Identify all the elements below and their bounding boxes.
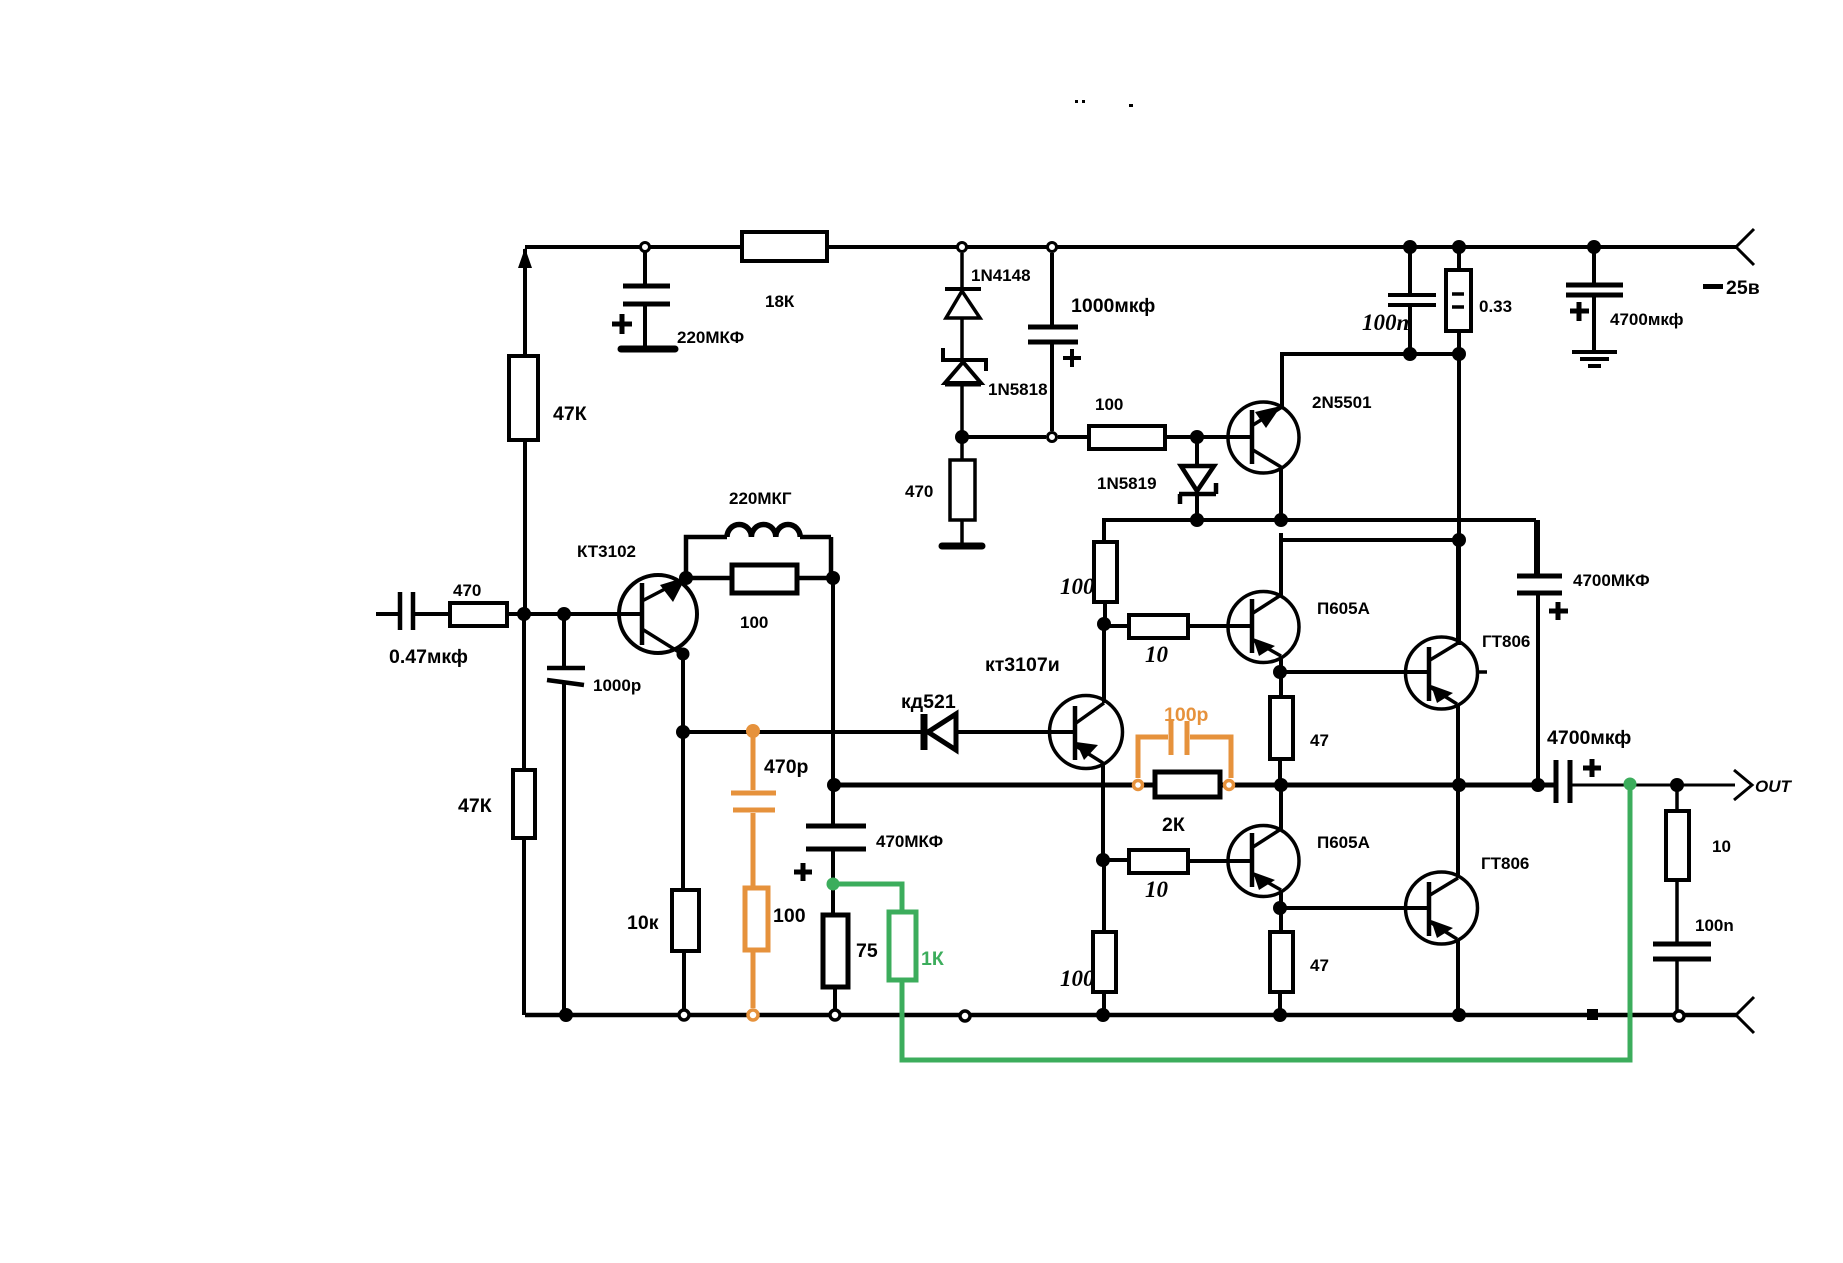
resistor 470 (bias shunt) [905,460,975,520]
wire кт3107и emitter down [1101,763,1105,860]
node junction y540 right [1452,533,1466,547]
wire кд521 line [683,730,1074,734]
wire ГТ806 lower emitter [1456,939,1460,1015]
node junction 1N5819 bottom on y520 [1190,513,1204,527]
node junction кт3107и emitter / 100 lower [1096,853,1110,867]
node junction 100 lower bottom [1096,1008,1110,1022]
capacitor 100п [1362,247,1436,354]
node junction 47/П605А lower collector [1274,778,1288,792]
svg-text:КТ3102: КТ3102 [577,542,636,561]
svg-text:1000мкф: 1000мкф [1071,295,1155,317]
diode кд521 [901,691,956,750]
svg-text:0.33: 0.33 [1479,297,1512,316]
capacitor 4700МКФ right [1517,520,1650,785]
node open junction 1N4148 top on rail [958,243,967,252]
node square junction right rail [1587,1009,1598,1020]
wire П605А upper collector net y540 [1281,533,1459,595]
wire 2N5501 emitter down [1279,467,1283,520]
svg-text:2N5501: 2N5501 [1312,393,1372,412]
svg-text:100: 100 [740,613,768,632]
node junction 4700мкф top on rail [1587,240,1601,254]
resistor 47 lower [1270,932,1329,992]
svg-text:100п: 100п [1362,310,1409,335]
node junction 0.33 top on rail [1452,240,1466,254]
svg-text:10: 10 [1145,642,1169,667]
svg-text:220МКГ: 220МКГ [729,489,792,508]
wire main output line [833,783,1556,788]
resistor 18K [742,232,827,311]
svg-text:10к: 10к [627,912,659,934]
resistor 10 output [1666,785,1731,942]
transistor 2N5501 [1228,393,1372,473]
wire кт3107и collector up [1102,624,1106,703]
wire 2N5501 collector to top net [1282,354,1459,407]
resistor 100 upper (italic) [1060,542,1117,624]
resistor 0.33 [1446,247,1512,354]
capacitor 1000p [547,614,641,1015]
node junction 2N5501 emitter on y520 [1274,513,1288,527]
capacitor 0.47мкф input [389,592,468,668]
wire input line [376,612,642,616]
wire left bias column (47K top) [523,249,527,614]
svg-text:470: 470 [453,581,481,600]
wire top supply rail [525,245,1736,249]
node junction 1000p bottom [559,1008,573,1022]
svg-text:П605А: П605А [1317,833,1370,852]
wire П605А lower collector [1279,785,1283,829]
svg-text:кт3107и: кт3107и [985,654,1060,676]
svg-text:2К: 2К [1162,814,1185,836]
svg-text:4700мкф: 4700мкф [1547,727,1631,749]
svg-text:47К: 47К [553,403,587,425]
wire ГТ806 lower base [1280,906,1429,910]
wire 0.33 node down right column [1457,354,1461,645]
wire П605А upper emitter [1280,656,1281,785]
node junction кд521 branch [676,725,690,739]
node junction right of parallel RL [826,571,840,585]
node junction 47 lower bottom [1273,1008,1287,1022]
node green tap at 470МКФ [827,878,840,891]
node open junction 1000мкф top on rail [1048,243,1057,252]
svg-text:470МКФ: 470МКФ [876,832,943,851]
node junction dot 220МКФ on rail [641,243,650,252]
svg-text:220МКФ: 220МКФ [677,328,744,347]
svg-text:1К: 1К [921,948,944,970]
node -25в label [1703,277,1760,299]
node junction mid line start / 470МКФ column [827,778,841,792]
node open junction 100n bottom [1674,1011,1684,1021]
node open junction 2К right (orange ring) [1225,781,1234,790]
svg-text:4700мкф: 4700мкф [1610,310,1684,329]
node junction 4700МКФ bottom [1531,778,1545,792]
ground below 470 [942,543,982,550]
svg-text:75: 75 [856,940,878,962]
node junction ГТ806 lower emitter bottom [1452,1008,1466,1022]
diode 1N5819 zener [1097,437,1216,520]
transistor кт3107и [985,654,1123,769]
node junction ГТ806 emitters [1452,778,1466,792]
node junction 100п top on rail [1403,240,1417,254]
wire 2N5501 base feed [962,435,1252,439]
capacitor 220МКФ [612,247,744,349]
transistor П605А upper [1228,592,1370,663]
node open junction 75 bottom [830,1010,840,1020]
svg-text:25в: 25в [1726,277,1760,299]
svg-text:кд521: кд521 [901,691,956,713]
node open junction 1000мкф bottom [1048,433,1057,442]
wire main output line right part [1571,784,1735,787]
svg-text:47: 47 [1310,956,1329,975]
node junction П605А emitter / ГТ806 base [1273,665,1287,679]
resistor 100 (2N5501 base) [1089,395,1165,449]
resistor 47 upper [1270,697,1329,759]
svg-text:100: 100 [1060,574,1095,599]
wire ГТ806 upper base [1280,670,1429,674]
svg-text:1000р: 1000р [593,676,641,695]
node junction below zener [955,430,969,444]
inductor 220МКГ [686,489,831,578]
resistor 100 lower (italic) [1060,860,1116,1015]
svg-text:0.47мкф: 0.47мкф [389,646,468,668]
wire bottom rail [525,1013,1736,1018]
svg-text:ГТ806: ГТ806 [1481,854,1529,873]
svg-text:100: 100 [1095,395,1123,414]
svg-text:1N4148: 1N4148 [971,266,1031,285]
node bottom rail arrow [1736,997,1754,1033]
resistor 10 lower [1103,850,1252,902]
node top rail arrow -25v [1736,229,1754,265]
svg-text:ГТ806: ГТ806 [1482,632,1530,651]
resistor 1К (green) [889,912,944,980]
svg-text:100р: 100р [1164,704,1209,726]
resistor 470 input [450,581,507,626]
ground 4700мкф [1572,352,1617,366]
node junction 100п bottom [1403,347,1417,361]
diode 1N5818 zener [943,348,1048,399]
svg-text:470р: 470р [764,756,809,778]
resistor 10к [627,890,699,951]
svg-text:470: 470 [905,482,933,501]
wire П605А lower emitter [1280,890,1281,1015]
wire upper net y520 [1104,520,1536,574]
resistor 47К lower [458,770,535,838]
wire ГТ806 lower collector [1456,785,1460,878]
node OUT arrow [1734,770,1752,800]
svg-text:1N5818: 1N5818 [988,380,1048,399]
wire 47К lower leads [522,614,526,1015]
node open junction 2К left (orange ring) [1134,781,1143,790]
node junction input / bias [517,607,531,621]
resistor 100 parallel [686,565,833,632]
wire 1N4148/1N5818 column [960,253,964,543]
node junction П605А lower emitter / ГТ806 lower base [1273,901,1287,915]
capacitor 470МКФ [794,785,943,915]
node green junction at output [1624,778,1637,791]
resistor 2К [1155,772,1220,836]
transistor П605А lower [1228,826,1370,897]
capacitor 1000мкф [1028,253,1155,431]
transistor КТ3102 [577,542,697,654]
node junction base/1N5819 [1190,430,1204,444]
svg-text:100n: 100n [1695,916,1734,935]
wire КТ3102 emitter column [683,654,684,1015]
svg-text:100: 100 [1060,966,1095,991]
svg-text:47К: 47К [458,795,492,817]
capacitor 4700мкф output [1547,727,1631,803]
capacitor 470p (orange) [731,724,809,888]
node junction КТ3102 collector [679,571,693,585]
svg-text:П605А: П605А [1317,599,1370,618]
node open junction orange 100 bottom [748,1010,758,1020]
svg-text:18К: 18К [765,292,795,311]
resistor 100 (orange) [745,888,806,1008]
resistor 75 [823,915,878,1015]
resistor 10 upper [1104,615,1252,667]
capacitor 100n [1653,916,1734,1015]
svg-text:100: 100 [773,905,806,927]
node stray marks top [1075,100,1133,107]
node open junction mid rail [960,1011,970,1021]
wire ГТ806 upper emitter [1456,704,1460,785]
node junction output / 10 [1670,778,1684,792]
svg-text:10: 10 [1145,877,1169,902]
transistor ГТ806 lower [1406,854,1530,944]
transistor ГТ806 upper [1406,632,1531,709]
node open junction 10к bottom [679,1010,689,1020]
capacitor 4700мкф (supply) [1566,247,1684,350]
resistor 47K upper [509,356,587,440]
svg-text:OUT: OUT [1755,777,1793,796]
node junction кт3107и collector / 10 [1097,617,1111,631]
capacitor 100p (orange) [1138,704,1231,778]
node junction input / 1000p [557,607,571,621]
wire feedback column down [831,578,835,785]
wire green feedback loop [833,783,1630,1060]
node arrow tip at top of bias column [518,248,532,268]
wire ГТ806 upper collector [1456,540,1460,643]
svg-text:47: 47 [1310,731,1329,750]
svg-text:10: 10 [1712,837,1731,856]
svg-text:1N5819: 1N5819 [1097,474,1157,493]
diode 1N4148 [945,266,1031,318]
svg-text:4700МКФ: 4700МКФ [1573,571,1650,590]
node junction 0.33 bottom [1452,347,1466,361]
node junction КТ3102 emitter [677,648,690,661]
